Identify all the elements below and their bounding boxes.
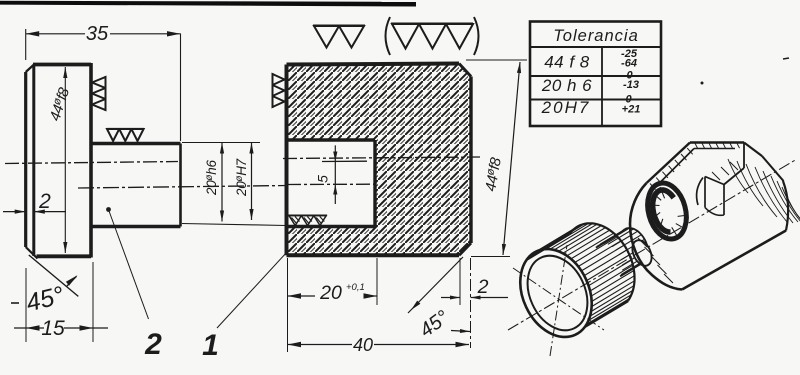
svg-text:35: 35 [86, 23, 109, 45]
svg-text:44 f 8: 44 f 8 [544, 53, 590, 72]
svg-text:1: 1 [202, 329, 219, 362]
svg-text:2: 2 [477, 276, 489, 298]
svg-text:20: 20 [319, 282, 342, 304]
svg-text:+0,1: +0,1 [346, 282, 365, 293]
svg-text:15: 15 [41, 317, 65, 340]
svg-text:-64: -64 [621, 58, 637, 70]
svg-text:2: 2 [38, 190, 51, 213]
svg-text:20H7: 20H7 [541, 98, 591, 117]
svg-text:Tolerancia: Tolerancia [553, 27, 639, 45]
svg-text:+21: +21 [622, 104, 641, 116]
svg-text:20 h 6: 20 h 6 [541, 76, 592, 95]
svg-text:5: 5 [315, 175, 331, 183]
svg-text:2: 2 [144, 328, 162, 361]
svg-text:-13: -13 [623, 79, 639, 91]
svg-text:40: 40 [353, 335, 373, 355]
